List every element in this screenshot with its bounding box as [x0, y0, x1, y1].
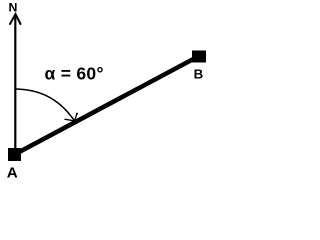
- svg-text:A: A: [7, 165, 18, 182]
- svg-text:α = 60°: α = 60°: [45, 64, 104, 84]
- svg-text:N: N: [9, 1, 18, 15]
- svg-text:B: B: [194, 67, 204, 82]
